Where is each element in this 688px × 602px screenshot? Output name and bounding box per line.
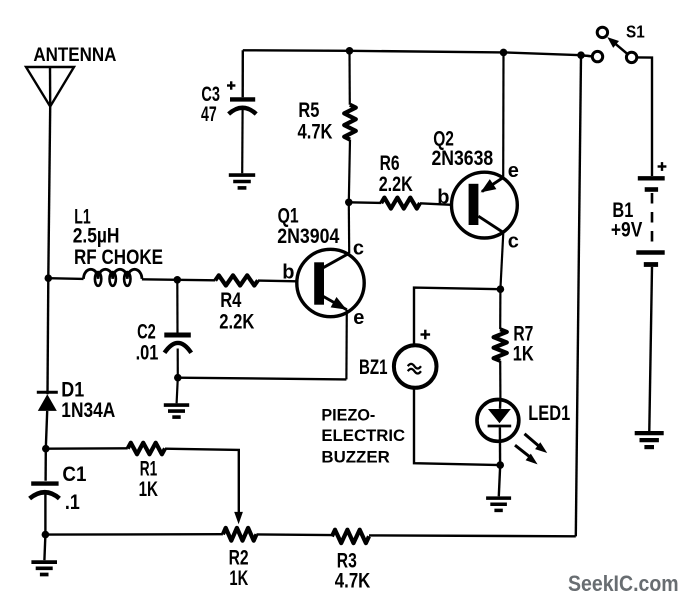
switch S1 pole contact (592, 51, 602, 61)
svg-text:2.5µH: 2.5µH (73, 225, 120, 248)
ground (left bottom) (31, 535, 57, 575)
wire R4 to Q1 base (258, 279, 297, 282)
switch S1 throw contact (626, 52, 636, 62)
transistor Q2 emitter (481, 52, 504, 192)
wire bottom rail left (45, 533, 223, 536)
svg-text:R2: R2 (229, 546, 249, 569)
wire top rail (243, 50, 593, 56)
svg-text:2N3904: 2N3904 (277, 225, 339, 248)
pin c (Q2) (508, 230, 519, 252)
resistor R5 (344, 105, 356, 140)
node R5 top junction (346, 47, 354, 55)
wire node to R7 (499, 289, 501, 329)
resistor R6 (381, 198, 420, 209)
wire R6 to Q2 base (420, 203, 452, 205)
svg-text:+9V: +9V (611, 218, 642, 241)
label C1 (62, 463, 86, 486)
svg-text:b: b (282, 262, 294, 284)
label L1 (74, 205, 91, 228)
resistor R1 (128, 443, 165, 455)
wire switch to battery (637, 57, 652, 176)
capacitor C1 (30, 449, 60, 535)
label 2.5uH (73, 225, 120, 248)
label 2.2K (R4) (219, 311, 254, 334)
label 4.7K (R3) (335, 570, 371, 593)
svg-text:PIEZO-: PIEZO- (321, 406, 375, 425)
battery B1 (636, 178, 664, 264)
pin e (Q1) (353, 307, 364, 329)
svg-text:C2: C2 (137, 321, 156, 344)
transistor Q1 base bar (314, 262, 324, 304)
svg-text:b: b (437, 186, 449, 208)
svg-text:4.7K: 4.7K (298, 120, 333, 143)
label R3 (337, 550, 357, 573)
R2 wiper arrow (234, 512, 243, 524)
plus (C3) (227, 81, 235, 89)
label R6 (380, 152, 400, 175)
resistor R3 (332, 530, 369, 543)
label 1K (R2) (229, 567, 248, 590)
label ELECTRIC (321, 426, 405, 445)
node D1/C1/R1 junction (42, 445, 50, 453)
transistor Q1 emitter (323, 296, 347, 379)
transistor Q2 collector (478, 216, 503, 289)
plus (B1) (658, 162, 667, 171)
node right-rail top junction (577, 51, 585, 59)
label 2.2K (R6) (379, 173, 413, 196)
ground (C3) (229, 175, 255, 188)
wire R7 to LED1 (499, 361, 501, 399)
svg-text:e: e (353, 307, 364, 329)
wire rail to switch pole (581, 55, 592, 56)
wire junction to L1 (48, 277, 83, 280)
transistor Q1 circle (297, 249, 364, 316)
wire Q1 emitter to C2 node (178, 378, 347, 380)
svg-text:47: 47 (201, 103, 217, 126)
wire R5 to junction (349, 140, 350, 203)
svg-text:BZ1: BZ1 (359, 356, 388, 379)
label R2 (229, 546, 249, 569)
ground (LED1/BZ1) (486, 465, 511, 510)
node Q2 emitter top junction (500, 49, 508, 57)
label Q1 (278, 204, 299, 227)
label 1K (R7) (513, 343, 534, 366)
svg-text:c: c (508, 230, 519, 252)
svg-text:2.2K: 2.2K (379, 173, 413, 196)
label R4 (220, 289, 241, 312)
svg-text:1K: 1K (229, 567, 248, 590)
wire Q2c node to BZ1 (414, 288, 500, 345)
LED1 light arrow 2 (515, 445, 538, 464)
transistor Q2 base bar (469, 184, 479, 225)
capacitor C3 (229, 50, 257, 173)
ground (C2) (164, 378, 189, 417)
svg-text:2N3638: 2N3638 (432, 147, 494, 170)
node C1-bottom junction (42, 531, 50, 539)
node antenna-L1 junction (45, 274, 53, 282)
node L1/C2/R4 junction (174, 276, 182, 284)
wire C1 node to R1 (46, 447, 128, 450)
wire left rail to D1 (46, 278, 49, 394)
node C2/emitter/ground junction (174, 374, 182, 382)
label 47 (201, 103, 217, 126)
svg-text:1N34A: 1N34A (61, 399, 115, 422)
label D1 (61, 378, 84, 401)
svg-text:2.2K: 2.2K (219, 311, 254, 334)
label LED1 (528, 402, 570, 425)
label R5 (298, 99, 319, 122)
wire D1 to C1 node (46, 411, 47, 449)
label R7 (513, 322, 533, 345)
diode D1 (37, 392, 58, 411)
svg-text:Q1: Q1 (278, 204, 299, 227)
svg-text:SeekIC.com: SeekIC.com (568, 571, 679, 596)
svg-text:1K: 1K (513, 343, 534, 366)
label +9V (611, 218, 642, 241)
antenna (26, 67, 74, 107)
wire L1 to C2 node (142, 278, 177, 281)
svg-text:c: c (353, 237, 364, 259)
svg-text:D1: D1 (61, 378, 84, 401)
LED1 light arrow 1 (525, 434, 548, 453)
ground (battery) (635, 433, 664, 447)
svg-text:R5: R5 (298, 99, 319, 122)
svg-text:4.7K: 4.7K (335, 570, 371, 593)
pin e (Q2) (508, 160, 519, 182)
svg-text:S1: S1 (626, 22, 645, 42)
potentiometer R2 (223, 528, 257, 541)
svg-text:R1: R1 (140, 457, 158, 480)
wire R3 to right rail (369, 534, 576, 537)
transistor Q2 circle (452, 172, 518, 238)
label PIEZO- (321, 406, 375, 425)
switch S1 upper contact (597, 27, 607, 37)
svg-text:RF CHOKE: RF CHOKE (74, 246, 163, 269)
switch S1 lever (607, 37, 627, 54)
antenna label (33, 44, 116, 66)
svg-text:BUZZER: BUZZER (321, 448, 389, 467)
label B1 (612, 199, 633, 222)
node Q2c/BZ1/R7 junction (497, 285, 505, 293)
inductor L1 (84, 269, 142, 286)
label .01 (136, 342, 159, 365)
label C2 (137, 321, 156, 344)
wire antenna lead (48, 107, 50, 279)
pin b (Q1) (282, 262, 294, 284)
svg-text:ANTENNA: ANTENNA (33, 44, 116, 66)
wire right rail (576, 55, 581, 536)
label 4.7K (R5) (298, 120, 333, 143)
svg-text:e: e (508, 160, 519, 182)
wire rail to R5 (348, 51, 350, 105)
label 1K (R1) (139, 478, 158, 501)
node R5/R6/Q1c junction (345, 199, 353, 207)
svg-text:.01: .01 (136, 342, 159, 365)
label 2N3904 (277, 225, 339, 248)
label RF CHOKE (74, 246, 163, 269)
svg-text:R4: R4 (220, 289, 241, 312)
watermark SeekIC.com (568, 571, 679, 596)
pin b (Q2) (437, 186, 449, 208)
svg-text:R6: R6 (380, 152, 400, 175)
resistor R7 (494, 329, 507, 361)
svg-text:1K: 1K (139, 478, 158, 501)
capacitor C2 (164, 280, 191, 378)
LED LED1 (477, 399, 519, 465)
label Q2 (433, 127, 454, 150)
pin c (Q1) (353, 237, 364, 259)
wire junction to R6 (349, 201, 381, 204)
plus (BZ1) (421, 330, 431, 340)
label C3 (201, 83, 220, 106)
label .1 (65, 491, 80, 514)
wire C2 node to R4 (177, 279, 215, 282)
wire R1 to wiper arrow (165, 449, 239, 513)
wire battery to ground (649, 267, 652, 431)
svg-text:LED1: LED1 (528, 402, 570, 425)
label S1 (626, 22, 645, 42)
svg-text:.1: .1 (65, 491, 80, 514)
buzzer BZ1 (394, 345, 437, 388)
svg-text:C1: C1 (62, 463, 86, 486)
transistor Q1 collector (323, 202, 349, 267)
label 2N3638 (432, 147, 494, 170)
label BZ1 (359, 356, 388, 379)
svg-text:ELECTRIC: ELECTRIC (321, 426, 405, 445)
label 1N34A (61, 399, 115, 422)
node LED1/BZ1 ground junction (496, 461, 504, 469)
resistor R4 (215, 275, 258, 285)
wire BZ1 to ground node (414, 388, 500, 465)
label BUZZER (321, 448, 389, 467)
wire R2 to R3 (257, 533, 332, 536)
label R1 (140, 457, 158, 480)
